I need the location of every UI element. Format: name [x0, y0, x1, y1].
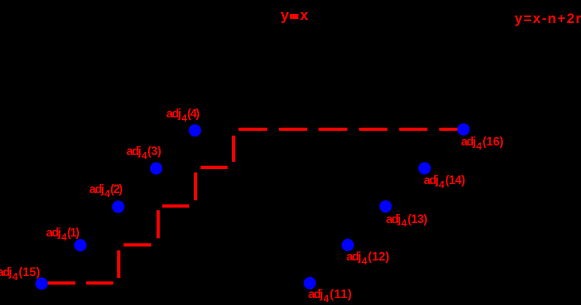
svg-text:adj: adj: [346, 250, 361, 264]
svg-text:4: 4: [401, 219, 407, 230]
svg-text:(13): (13): [408, 212, 428, 226]
svg-text:(14): (14): [445, 173, 465, 187]
svg-text:adj: adj: [126, 144, 141, 158]
svg-text:(3): (3): [147, 144, 161, 158]
svg-text:adj: adj: [386, 212, 401, 226]
svg-text:y=x-n+2r: y=x-n+2r: [515, 10, 581, 26]
svg-text:(4): (4): [187, 107, 200, 121]
svg-text:adj: adj: [46, 225, 61, 239]
svg-text:adj: adj: [0, 265, 12, 279]
svg-text:y: y: [281, 7, 290, 24]
svg-text:(16): (16): [483, 135, 504, 149]
svg-text:(12): (12): [368, 250, 390, 264]
svg-text:x: x: [300, 7, 309, 24]
svg-text:adj: adj: [308, 287, 323, 301]
svg-text:4: 4: [476, 142, 482, 153]
svg-text:(11): (11): [330, 287, 352, 301]
svg-text:4: 4: [439, 180, 445, 191]
svg-text:adj: adj: [89, 182, 104, 196]
svg-text:adj: adj: [424, 173, 439, 187]
svg-text:4: 4: [362, 257, 368, 268]
svg-text:4: 4: [12, 272, 18, 283]
svg-text:(15): (15): [19, 265, 40, 279]
svg-text:adj: adj: [461, 135, 476, 149]
svg-text:4: 4: [323, 294, 329, 305]
svg-text:adj: adj: [166, 107, 181, 121]
svg-text:(1): (1): [67, 225, 80, 239]
svg-text:(2): (2): [110, 182, 123, 196]
